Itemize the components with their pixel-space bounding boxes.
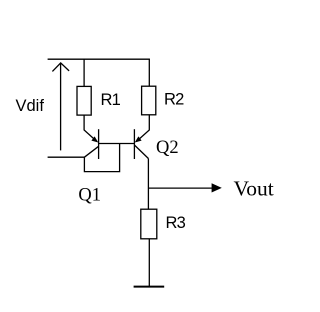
svg-text:Q1: Q1 — [78, 186, 101, 206]
transistor Q2 emitter arrowhead — [135, 136, 142, 142]
wire Vout line — [148, 187, 213, 189]
Vout arrowhead — [212, 183, 222, 192]
svg-text:Q2: Q2 — [156, 138, 179, 158]
Vdif arrow shaft — [60, 64, 62, 151]
wire R1 top lead — [83, 59, 85, 86]
wire R2 top lead — [148, 59, 150, 86]
transistor Q1 collector lead — [84, 146, 98, 157]
resistor R2 — [142, 86, 156, 115]
transistor Q2 collector lead — [134, 145, 148, 159]
transistor Q2 emitter lead — [136, 115, 149, 142]
svg-text:Vdif: Vdif — [16, 97, 45, 115]
wire R3 bottom lead — [148, 239, 150, 287]
transistor Q1 emitter lead — [84, 115, 97, 142]
wire top supply rail — [48, 58, 150, 60]
svg-text:R3: R3 — [166, 214, 186, 232]
Vdif arrowhead — [52, 63, 69, 72]
resistor R1 — [77, 86, 91, 115]
wire left input segment — [48, 156, 85, 158]
resistor R3 — [141, 209, 157, 239]
svg-text:R1: R1 — [101, 91, 121, 109]
svg-text:R2: R2 — [164, 91, 184, 109]
wire base connection Q1-Q2 — [99, 143, 135, 145]
transistor Q1 base bar — [98, 129, 100, 159]
transistor Q2 base bar — [133, 129, 135, 159]
wire diode-connection loop — [84, 144, 119, 172]
svg-text:Vout: Vout — [234, 177, 274, 201]
transistor Q1 emitter arrowhead — [91, 136, 98, 142]
wire Q2 collector to output node — [147, 159, 149, 210]
ground — [134, 286, 165, 288]
